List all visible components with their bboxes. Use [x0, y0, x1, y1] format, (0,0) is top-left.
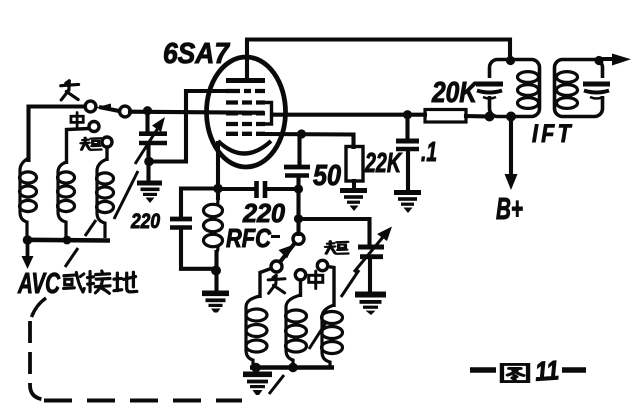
wire 220 series cap to osc column: [268, 187, 297, 191]
wire mid contact to coil LB: [299, 280, 302, 297]
switch S1 contact short: [102, 137, 112, 147]
ground under .1: [394, 190, 421, 213]
wire cathode to bypass cap: [181, 189, 218, 217]
label huo (or): [64, 272, 85, 292]
tube cathode arc: [218, 141, 271, 154]
tube plate bar: [226, 78, 265, 83]
label tu (figure) boxed: [502, 364, 528, 381]
svg-text:RFC: RFC: [226, 223, 272, 253]
switch S1 contact long: [85, 101, 96, 112]
tube grid row 4 G2: [226, 122, 265, 126]
switch S1 contact mid: [89, 122, 99, 132]
wire IF output: [602, 57, 615, 61]
osc contact long: [271, 261, 282, 272]
IFT primary cap plates: [476, 82, 503, 87]
gang slash antenna coil: [114, 171, 138, 219]
IFT secondary coil: [557, 72, 578, 109]
varcap C1 plates: [139, 131, 167, 136]
IFT primary coil: [518, 72, 539, 109]
node dot G1 tap: [297, 129, 306, 138]
capacitor 220 series plates: [254, 181, 259, 198]
wire .1 cap bottom lead: [406, 151, 410, 190]
wire screens to 20K: [272, 113, 425, 117]
node dot RFC foot: [211, 266, 221, 276]
label chang (long) osc: [268, 275, 285, 293]
svg-text:11: 11: [534, 355, 560, 387]
wire varcap1 bottom lead: [146, 146, 150, 181]
wire plate top bus: [247, 40, 510, 79]
dashed AVC link: [32, 298, 47, 317]
node dot B+: [506, 112, 516, 122]
node dot cathode: [213, 184, 223, 194]
wire cathode lead: [216, 143, 220, 198]
svg-text:22K: 22K: [364, 147, 402, 178]
osc coil LC: [322, 305, 343, 366]
capacitor .1 plates: [396, 139, 419, 144]
node dot varcap bottom: [144, 157, 154, 167]
antenna coil L3: [97, 159, 114, 238]
label zhong (medium) top: [71, 112, 83, 127]
label chang (long) top: [61, 81, 79, 100]
tube 6SA7 envelope U1: [207, 57, 286, 167]
switch S1 contact 2: [120, 106, 131, 117]
IFT primary box: [490, 60, 540, 117]
label fig dash right: [562, 367, 586, 372]
varcap C2 plates: [358, 245, 384, 250]
wire short contact to coil LC: [328, 267, 335, 308]
wire G5 riser: [152, 91, 230, 162]
tube grid row 2 G4: [226, 100, 265, 104]
node dot IFT primary bottom left: [485, 112, 495, 122]
osc coil common bar: [250, 365, 334, 370]
osc contact short: [317, 260, 327, 270]
wire switch to signal grid: [130, 112, 262, 113]
ground under 22K: [340, 188, 367, 211]
ground under varcap C2: [355, 292, 386, 316]
svg-text:.1: .1: [421, 136, 437, 167]
resistor 22K body: [346, 147, 363, 182]
antenna coil common bar: [24, 238, 110, 243]
svg-text:IFT: IFT: [532, 120, 574, 148]
node dot osc col upper: [294, 184, 303, 193]
capacitor 220 bypass plates: [170, 217, 192, 222]
osc contact mid: [295, 270, 305, 280]
osc switch pivot: [293, 233, 304, 244]
B+ arrowhead: [505, 174, 518, 190]
switch S1 blade: [99, 107, 119, 111]
osc switch blade: [280, 244, 295, 263]
node dot varcap top: [143, 106, 152, 115]
wire osc junction to varcap2: [300, 219, 370, 244]
varcap C1 arrow: [135, 128, 158, 164]
IFT secondary cap plates: [583, 82, 610, 87]
label fig dash left: [470, 367, 496, 372]
label duan (short) top: [81, 138, 101, 150]
tube screen tie bracket: [265, 103, 276, 125]
wire long contact to coil LA: [260, 269, 271, 299]
wire varcap2 bottom lead: [368, 260, 372, 292]
wire cathode to 220 series cap: [220, 187, 254, 191]
node dot osc col lower: [294, 214, 303, 223]
node dot IFT primary top: [506, 56, 515, 65]
AVC arrow: [26, 243, 30, 257]
node dot LA: [251, 363, 261, 373]
wire B+ lead: [509, 117, 513, 175]
svg-text:20K: 20K: [431, 77, 479, 109]
varcap C2 arrow: [354, 237, 383, 272]
RFC coil: [204, 198, 223, 252]
svg-text:220: 220: [130, 210, 160, 233]
tube grid row 1 G5: [226, 89, 265, 93]
antenna coil L1: [20, 158, 37, 238]
ground under RFC: [202, 291, 229, 313]
label di (ground): [114, 272, 137, 292]
node dot L2: [63, 236, 72, 245]
capacitor 50 plates: [284, 165, 310, 170]
wire varcap1 top lead: [145, 111, 149, 132]
ground under osc bar: [243, 372, 272, 396]
gang slash below bar: [65, 248, 78, 267]
wire 22K bottom lead: [352, 181, 356, 189]
svg-text:6SA7: 6SA7: [163, 38, 231, 70]
IF out arrowhead: [612, 54, 631, 66]
osc coil LA: [246, 296, 267, 366]
label zhong (medium) osc: [309, 271, 323, 288]
tube grid row 5 G1: [226, 132, 265, 136]
gang slash osc varcap: [341, 270, 359, 297]
wire 50cap top lead: [297, 136, 301, 165]
wire 50cap bottom / osc junction column: [296, 178, 300, 234]
svg-text:AVC: AVC: [17, 268, 60, 300]
antenna coil L2: [58, 162, 75, 238]
label jie (connect): [87, 271, 110, 293]
wire RFC bottom to ground: [214, 252, 218, 289]
node dot IFT secondary out: [594, 56, 603, 65]
wire antenna left vertical: [29, 107, 86, 161]
resistor 20K body: [425, 110, 466, 123]
osc coil LB: [286, 295, 307, 366]
gang slash osc coils: [309, 321, 327, 349]
wire G1 to 22K: [265, 134, 354, 147]
IFT secondary box: [555, 60, 603, 117]
wire bypass cap bottom to RFC foot: [181, 231, 214, 269]
label duan (short) osc: [325, 241, 348, 254]
svg-text:B+: B+: [496, 191, 523, 226]
node dot L1: [23, 235, 33, 245]
node dot screens: [403, 110, 412, 119]
node dot LB: [288, 363, 298, 373]
wire .1 cap top lead: [405, 116, 409, 139]
gang slash antenna bar: [85, 220, 96, 236]
wire mid contact to coil L2: [67, 129, 90, 165]
wire short contact to coil L3: [105, 147, 108, 161]
tube grid row 3 G3 signal: [226, 111, 265, 115]
wire 20K to IFT: [466, 114, 490, 119]
ground under varcap C1: [137, 181, 162, 204]
svg-text:50: 50: [313, 160, 341, 192]
gang slash osc ground: [269, 375, 284, 394]
